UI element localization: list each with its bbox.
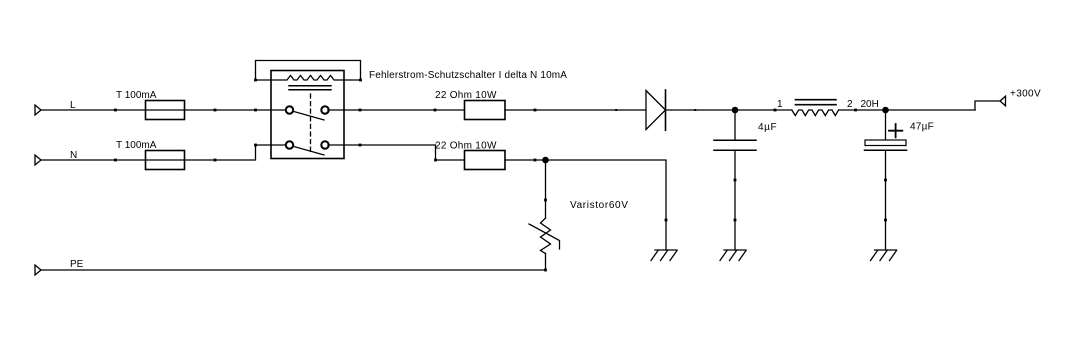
wire L input [41, 109, 287, 111]
RCD switch blade N [295, 147, 324, 155]
pin tick L1 pin2 [854, 109, 857, 112]
svg-text:Fehlerstrom-Schutzschalter I d: Fehlerstrom-Schutzschalter I delta N 10m… [369, 70, 567, 81]
junction dot PE/varistor [544, 269, 547, 272]
pin tick resistor L left [434, 109, 437, 112]
ground (C2) [871, 250, 897, 261]
terminal PE [35, 265, 41, 275]
pin tick resistor L right [534, 109, 537, 112]
pin tick fuse N right [214, 159, 217, 162]
junction dot 47uF node [882, 107, 889, 114]
svg-text:+300V: +300V [1010, 89, 1041, 100]
terminal +300V [1000, 96, 1006, 106]
svg-text:20H: 20H [861, 99, 879, 110]
fuse T 100mA (N line) [116, 140, 185, 170]
pin tick RCD L-in [254, 109, 257, 112]
fuse T 100mA (L line) [116, 90, 185, 120]
pin tick RCD N-out [359, 144, 362, 147]
capacitor C1 4uF [714, 110, 777, 250]
pin tick C1 ground lead [734, 219, 737, 222]
pin tick resistor N right [534, 159, 537, 162]
RCD toroid winding [256, 75, 361, 80]
resistor 22 Ohm 10W (L line) [435, 90, 505, 120]
wire to +300V output [975, 101, 1000, 110]
svg-text:22 Ohm 10W: 22 Ohm 10W [435, 141, 497, 152]
pin tick fuse L right [214, 109, 217, 112]
svg-text:PE: PE [70, 259, 84, 270]
svg-text:22 Ohm 10W: 22 Ohm 10W [435, 90, 497, 101]
pin tick varistor top [544, 199, 547, 202]
wire diode to filter [666, 109, 792, 111]
diode D1 [646, 90, 666, 130]
pin tick C1 bottom [734, 179, 737, 182]
RCD trip linkage (dashed) [310, 94, 312, 154]
svg-text:Varistor60V: Varistor60V [570, 200, 629, 211]
RCD switch contact L left [286, 106, 293, 113]
RCD switch contact L right [321, 106, 328, 113]
resistor 22 Ohm 10W (N line) [435, 141, 505, 170]
pin tick C2 bottom [884, 179, 887, 182]
wire PE [41, 269, 546, 271]
RCD breaker box (Fehlerstrom-Schutzschalter) [271, 70, 567, 159]
svg-text:2: 2 [847, 99, 853, 110]
svg-text:T 100mA: T 100mA [116, 90, 157, 101]
inductor L1 20H [777, 99, 879, 116]
pin tick resistor N left (corner) [434, 159, 437, 162]
pin tick RCD bracket right [359, 79, 362, 82]
junction dot 4uF node [732, 107, 739, 114]
wire L1 to output node [839, 109, 975, 111]
pin tick RCD L-out [359, 109, 362, 112]
svg-text:T 100mA: T 100mA [116, 140, 157, 151]
RCD sense-coil bracket wire [256, 61, 361, 81]
pin tick RCD bracket left [254, 79, 257, 82]
RCD core lines [289, 86, 331, 90]
wire L from RCD to resistor [328, 109, 465, 111]
pin tick diode cathode [694, 109, 696, 111]
capacitor C2 47uF electrolytic [865, 110, 935, 250]
terminal N [35, 155, 41, 165]
pin tick fuse N left [114, 159, 117, 162]
wire N from resistor to down-lead [505, 160, 666, 250]
pin tick L1 pin1 [774, 109, 777, 112]
pin tick C2 ground lead [884, 219, 887, 222]
RCD switch contact N left [286, 141, 293, 148]
pin tick N ground lead [665, 219, 668, 222]
pin tick RCD N-in [254, 144, 257, 147]
wire L from resistor to diode [505, 109, 646, 111]
ground (C1) [720, 250, 746, 261]
terminal L [35, 105, 41, 115]
pin tick diode anode [615, 109, 617, 111]
pin tick fuse L left [114, 109, 117, 112]
RCD switch blade L [295, 112, 324, 120]
ground (N lead) [651, 250, 677, 261]
svg-text:4µF: 4µF [758, 122, 777, 133]
svg-text:1: 1 [777, 99, 783, 110]
wire N from RCD jog to resistor [328, 145, 465, 160]
junction dot N/varistor [542, 157, 549, 164]
varistor 60V [529, 160, 629, 270]
wire N input [41, 145, 287, 160]
RCD switch contact N right [321, 141, 328, 148]
svg-text:47µF: 47µF [910, 122, 934, 133]
